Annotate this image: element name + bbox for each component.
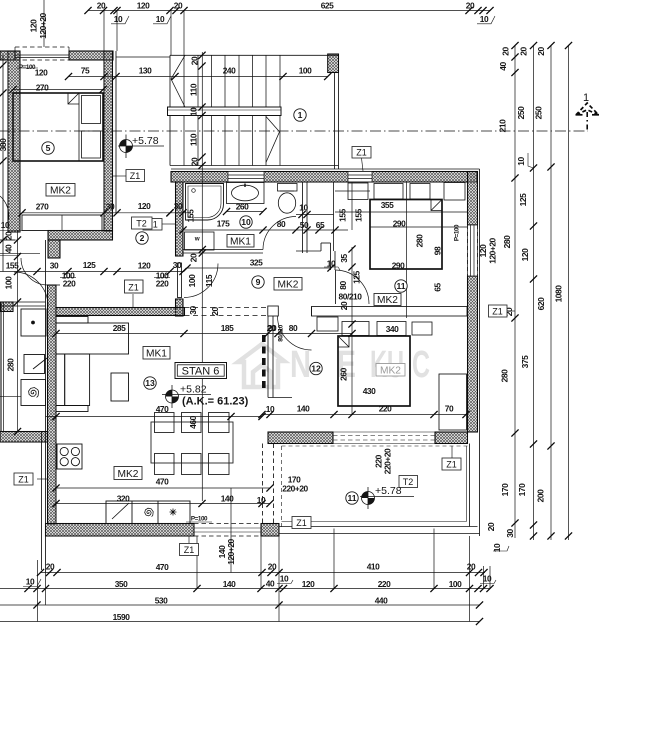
- svg-text:625: 625: [321, 1, 334, 11]
- svg-text:470: 470: [156, 562, 169, 572]
- svg-text:530: 530: [155, 596, 168, 606]
- wall entry left pier: [176, 299, 184, 316]
- svg-text:20: 20: [46, 562, 55, 572]
- svg-text:155: 155: [338, 208, 348, 221]
- wall right of building upper: [468, 172, 478, 226]
- svg-text:250: 250: [534, 106, 544, 119]
- stair landing bar: [168, 107, 282, 116]
- svg-text:Z1: Z1: [492, 307, 503, 317]
- svg-text:120: 120: [520, 248, 530, 261]
- bottom dims: [40, 572, 485, 574]
- svg-text:10: 10: [299, 203, 308, 213]
- svg-text:MK2: MK2: [377, 295, 398, 306]
- svg-text:2: 2: [140, 233, 145, 243]
- svg-text:340: 340: [386, 324, 399, 334]
- hall9 dim: [187, 267, 331, 269]
- direction arrows: [171, 55, 185, 79]
- wall between hall9 and room11: [330, 243, 332, 270]
- svg-text:Z1: Z1: [18, 475, 29, 485]
- svg-text:290: 290: [392, 261, 405, 271]
- top dim: [88, 10, 490, 12]
- svg-text:40: 40: [4, 244, 14, 253]
- terrace inner dashed: [281, 446, 283, 529]
- wall west of kitchen: [48, 285, 57, 524]
- y76 dim: [69, 76, 329, 78]
- svg-text:140: 140: [221, 494, 234, 504]
- svg-text:185: 185: [221, 323, 234, 333]
- toilet: [278, 184, 298, 214]
- vertical x231 bottom: [230, 488, 232, 573]
- kitchen stove: [57, 444, 82, 469]
- landing left edge: [115, 51, 117, 213]
- kitchen counter: [106, 501, 190, 524]
- wall room5 bottom: [48, 231, 113, 241]
- neighbour room above kitchen partial: [0, 55, 48, 432]
- room12 east closet: [439, 374, 467, 430]
- room5 bottom dim: [22, 212, 190, 214]
- right dim lines: [514, 46, 516, 539]
- svg-text:210: 210: [498, 119, 508, 132]
- svg-text:MK2: MK2: [278, 280, 299, 291]
- svg-text:5: 5: [46, 143, 51, 153]
- svg-text:(A.K.= 61.23): (A.K.= 61.23): [182, 396, 249, 408]
- svg-text:20: 20: [536, 47, 546, 56]
- svg-text:80/210: 80/210: [278, 324, 285, 342]
- svg-text:Z1: Z1: [296, 518, 307, 528]
- svg-text:1: 1: [583, 92, 589, 104]
- sink: [227, 183, 265, 204]
- svg-text:20: 20: [467, 562, 476, 572]
- room5 bed dim: [13, 89, 103, 91]
- bed room5: [13, 93, 103, 231]
- svg-text:11: 11: [396, 281, 405, 291]
- svg-text:10: 10: [266, 404, 275, 414]
- kitchen west door opening faces: [48, 257, 60, 259]
- toilet partition: [302, 182, 304, 253]
- room12 dim y414.5: [262, 414, 467, 416]
- terrace parapet: [469, 444, 471, 527]
- svg-text:80: 80: [277, 219, 286, 229]
- svg-text:130: 130: [139, 66, 152, 76]
- svg-text:100: 100: [4, 276, 14, 289]
- rotated dim labels: [0, 12, 564, 564]
- svg-text:T2: T2: [403, 477, 414, 487]
- svg-text:270: 270: [36, 202, 49, 212]
- door arc room12: [278, 316, 312, 350]
- svg-text:120: 120: [302, 579, 315, 589]
- wall west of kitchen upper: [48, 240, 60, 258]
- window room11 top (Z1): [348, 172, 372, 183]
- svg-text:220+20: 220+20: [383, 448, 393, 474]
- svg-text:120+20: 120+20: [38, 12, 48, 38]
- svg-text:30: 30: [50, 261, 59, 271]
- terrace +5.78: [360, 485, 414, 509]
- svg-text:12: 12: [311, 364, 321, 374]
- niche lines right of toilet: [296, 182, 334, 251]
- svg-text:250: 250: [516, 106, 526, 119]
- svg-text:65: 65: [316, 220, 325, 230]
- STAN 6: [175, 363, 227, 379]
- svg-text:270: 270: [36, 83, 49, 93]
- svg-text:70: 70: [445, 404, 454, 414]
- svg-text:120+20: 120+20: [488, 237, 498, 263]
- bottom extensions: [37, 560, 39, 622]
- svg-text:100: 100: [187, 274, 197, 287]
- window right wall (P=100): [468, 225, 478, 276]
- svg-text:20: 20: [268, 562, 277, 572]
- svg-text:100: 100: [449, 579, 462, 589]
- svg-text:MK2: MK2: [50, 186, 71, 197]
- svg-text:470: 470: [156, 477, 169, 487]
- svg-text:175: 175: [217, 219, 230, 229]
- svg-text:20: 20: [268, 323, 277, 333]
- sliding panel dashed bar living/room12: [262, 335, 266, 392]
- svg-text:280: 280: [415, 234, 425, 247]
- svg-text:80/210: 80/210: [339, 292, 363, 302]
- kitchen inner faces: [55, 308, 57, 524]
- wall living top: [56, 308, 185, 316]
- neighbour left wall lines: [41, 432, 43, 571]
- left small vertical dim: [17, 230, 19, 432]
- svg-text:140: 140: [223, 579, 236, 589]
- living dim y416: [46, 416, 263, 418]
- building outer right edge: [479, 169, 481, 536]
- svg-text:98: 98: [433, 246, 443, 255]
- svg-text:120: 120: [478, 244, 488, 257]
- svg-text:140: 140: [297, 404, 310, 414]
- svg-text:20: 20: [519, 47, 529, 56]
- svg-text:20: 20: [189, 253, 199, 262]
- watermark letters: [290, 344, 430, 386]
- svg-text:9: 9: [256, 277, 261, 287]
- svg-text:375: 375: [520, 355, 530, 368]
- neighbour kitchen strip: [21, 309, 47, 406]
- wall room12 south left: [268, 432, 333, 444]
- wall bathroom left: [176, 182, 184, 256]
- watermark house logo: [238, 344, 284, 387]
- bath lower dim: [183, 229, 348, 231]
- section dash-dot line: [0, 130, 588, 132]
- wall stair pier: [328, 54, 339, 73]
- svg-text:30: 30: [505, 529, 515, 538]
- svg-text:N: N: [290, 344, 311, 386]
- svg-text:+5.82: +5.82: [180, 384, 207, 396]
- stair hall: [170, 54, 339, 56]
- svg-text:125: 125: [352, 270, 362, 283]
- entry door leaf + arc: [178, 263, 182, 298]
- bed room12: [317, 317, 432, 406]
- leader hooks: [16, 16, 534, 587]
- small Z1/T2 boxes: [14, 147, 515, 556]
- svg-text:20: 20: [190, 56, 200, 65]
- wall stub left of kitchen corner: [0, 432, 48, 443]
- svg-text:280: 280: [502, 235, 512, 248]
- window room5 top (dashed opening): [15, 47, 69, 60]
- svg-text:10: 10: [480, 14, 489, 24]
- svg-text:115: 115: [204, 274, 214, 287]
- svg-text:C: C: [412, 344, 430, 386]
- svg-text:285: 285: [113, 323, 126, 333]
- svg-text:40: 40: [498, 62, 508, 71]
- living sliding opening dashes: [185, 307, 268, 309]
- window bathroom top: [228, 172, 264, 183]
- svg-text:75: 75: [81, 66, 90, 76]
- svg-text:120: 120: [138, 261, 151, 271]
- svg-text:Z1: Z1: [184, 545, 195, 555]
- wall kitchen south pier east: [261, 524, 279, 537]
- svg-text:120: 120: [35, 68, 48, 78]
- svg-text:1590: 1590: [113, 612, 131, 622]
- room boundary lines bath bottom: [183, 249, 263, 251]
- wall room5 right: [104, 51, 113, 231]
- svg-text:P=100: P=100: [19, 64, 36, 71]
- svg-text:35: 35: [339, 254, 349, 263]
- svg-text:STAN 6: STAN 6: [182, 366, 220, 378]
- svg-text:440: 440: [375, 596, 388, 606]
- landing +5.78: [118, 135, 164, 159]
- svg-text:350: 350: [115, 579, 128, 589]
- svg-text:620: 620: [536, 297, 546, 310]
- svg-text:13: 13: [145, 378, 155, 388]
- svg-text:155: 155: [354, 208, 364, 221]
- bath dim under sink: [227, 211, 264, 213]
- svg-text:30: 30: [173, 260, 182, 270]
- stairs risers: [171, 55, 280, 165]
- wall room12 south right pier: [435, 432, 468, 444]
- inner face under top wall: [183, 181, 468, 183]
- living dim y333.5: [56, 333, 352, 335]
- svg-text:280: 280: [500, 369, 510, 382]
- svg-text:20: 20: [210, 307, 220, 316]
- svg-text:30: 30: [106, 202, 115, 212]
- svg-text:MK1: MK1: [146, 349, 167, 360]
- svg-text:Z1: Z1: [446, 460, 457, 470]
- svg-text:325: 325: [250, 258, 263, 268]
- svg-text:260: 260: [339, 367, 349, 380]
- svg-text:20: 20: [174, 1, 183, 11]
- svg-text:65: 65: [433, 283, 443, 292]
- svg-text:170: 170: [500, 483, 510, 496]
- svg-text:20: 20: [97, 1, 106, 11]
- wall room5 top left piece: [0, 51, 15, 60]
- svg-text:280: 280: [6, 358, 16, 371]
- svg-text:50: 50: [300, 220, 309, 230]
- svg-text:155: 155: [186, 209, 196, 222]
- svg-text:1080: 1080: [554, 285, 564, 303]
- stairs vertical dim: [201, 52, 203, 501]
- dining table + chairs: [151, 413, 233, 475]
- wall room5 left: [8, 51, 20, 232]
- svg-text:w: w: [194, 236, 200, 243]
- svg-text:P=100: P=100: [454, 224, 461, 241]
- south wall outer/inner lines across opening: [194, 523, 261, 525]
- svg-text:MK2: MK2: [380, 366, 401, 377]
- svg-text:220: 220: [63, 279, 76, 289]
- svg-text:220: 220: [156, 279, 169, 289]
- svg-text:30: 30: [188, 306, 198, 315]
- outer top edge of south block: [171, 168, 480, 170]
- svg-text:20: 20: [501, 47, 511, 56]
- svg-text:430: 430: [363, 386, 376, 396]
- wall right of building lower: [468, 276, 478, 432]
- svg-text:410: 410: [367, 562, 380, 572]
- sofa living: [56, 317, 129, 412]
- svg-text:125: 125: [518, 193, 528, 206]
- washer: [185, 232, 215, 250]
- svg-text:320: 320: [117, 494, 130, 504]
- corridor2 lower dim: [0, 271, 183, 273]
- svg-text:80: 80: [289, 323, 298, 333]
- svg-text:220: 220: [378, 579, 391, 589]
- svg-text:200: 200: [536, 489, 546, 502]
- svg-text:20: 20: [190, 157, 200, 166]
- landing top edge: [116, 56, 170, 58]
- svg-text:10: 10: [241, 217, 251, 227]
- svg-text:110: 110: [189, 133, 199, 146]
- svg-text:10: 10: [114, 14, 123, 24]
- svg-text:220: 220: [379, 404, 392, 414]
- bathtub: [186, 184, 224, 221]
- svg-text:10: 10: [483, 574, 492, 584]
- svg-text:120: 120: [138, 201, 151, 211]
- bed room11: [348, 183, 465, 270]
- svg-text:Z1: Z1: [356, 148, 367, 158]
- wall neighbour left below: [0, 302, 13, 312]
- wall room5 top right piece: [69, 51, 113, 60]
- room12 south opening (sliding): [333, 431, 435, 433]
- svg-text:Z1: Z1: [128, 283, 139, 293]
- svg-text:110: 110: [189, 83, 199, 96]
- svg-text:10: 10: [189, 107, 199, 116]
- svg-text:120+20: 120+20: [226, 538, 236, 564]
- svg-text:10: 10: [156, 14, 165, 24]
- svg-text:MK2: MK2: [118, 469, 139, 480]
- vertical x352: [351, 247, 353, 415]
- svg-text:10: 10: [516, 157, 526, 166]
- svg-text:30: 30: [174, 201, 183, 211]
- svg-text:125: 125: [83, 260, 96, 270]
- svg-text:460: 460: [188, 415, 198, 428]
- svg-text:+5.78: +5.78: [375, 485, 402, 497]
- svg-text:20: 20: [486, 522, 496, 531]
- wall living/room12: [267, 316, 269, 398]
- svg-text:40: 40: [266, 579, 275, 589]
- svg-text:+5.78: +5.78: [132, 135, 159, 147]
- kitchen/terrace dashed opening: [262, 444, 264, 524]
- neighbour door arc: [21, 258, 48, 285]
- svg-text:20: 20: [466, 1, 475, 11]
- bath door arc: [263, 217, 296, 250]
- living +5.82: [162, 384, 249, 409]
- partition room11/room12: [312, 307, 468, 317]
- svg-text:120: 120: [137, 1, 150, 11]
- svg-text:100: 100: [299, 66, 312, 76]
- svg-text:470: 470: [156, 404, 169, 414]
- kitchen dims: [56, 487, 270, 489]
- svg-text:T2: T2: [136, 219, 147, 229]
- svg-text:10: 10: [26, 577, 35, 587]
- wall kitchen south: [46, 524, 195, 537]
- svg-text:240: 240: [223, 66, 236, 76]
- svg-text:10: 10: [1, 220, 10, 230]
- svg-text:P=100: P=100: [191, 516, 208, 523]
- wardrobe room5: [22, 215, 102, 231]
- svg-text:220+20: 220+20: [282, 484, 308, 494]
- svg-text:11: 11: [347, 493, 356, 503]
- wall top of bathroom and room11: [171, 172, 477, 183]
- door leaf room11: [335, 270, 337, 304]
- jamb living/room12: [268, 306, 279, 316]
- svg-text:260: 260: [236, 202, 249, 212]
- svg-text:10: 10: [280, 574, 289, 584]
- svg-text:10: 10: [257, 495, 266, 505]
- svg-text:Z1: Z1: [130, 171, 141, 181]
- svg-text:120: 120: [29, 19, 39, 32]
- svg-text:20: 20: [339, 301, 349, 310]
- svg-text:170: 170: [517, 483, 527, 496]
- svg-text:380: 380: [0, 138, 8, 151]
- svg-text:MK1: MK1: [230, 237, 251, 248]
- svg-text:20: 20: [4, 231, 14, 240]
- svg-text:355: 355: [381, 200, 394, 210]
- svg-text:80: 80: [338, 281, 348, 290]
- svg-text:155: 155: [6, 261, 19, 271]
- north arrow: [576, 103, 600, 131]
- svg-text:1: 1: [298, 110, 303, 120]
- svg-text:290: 290: [393, 219, 406, 229]
